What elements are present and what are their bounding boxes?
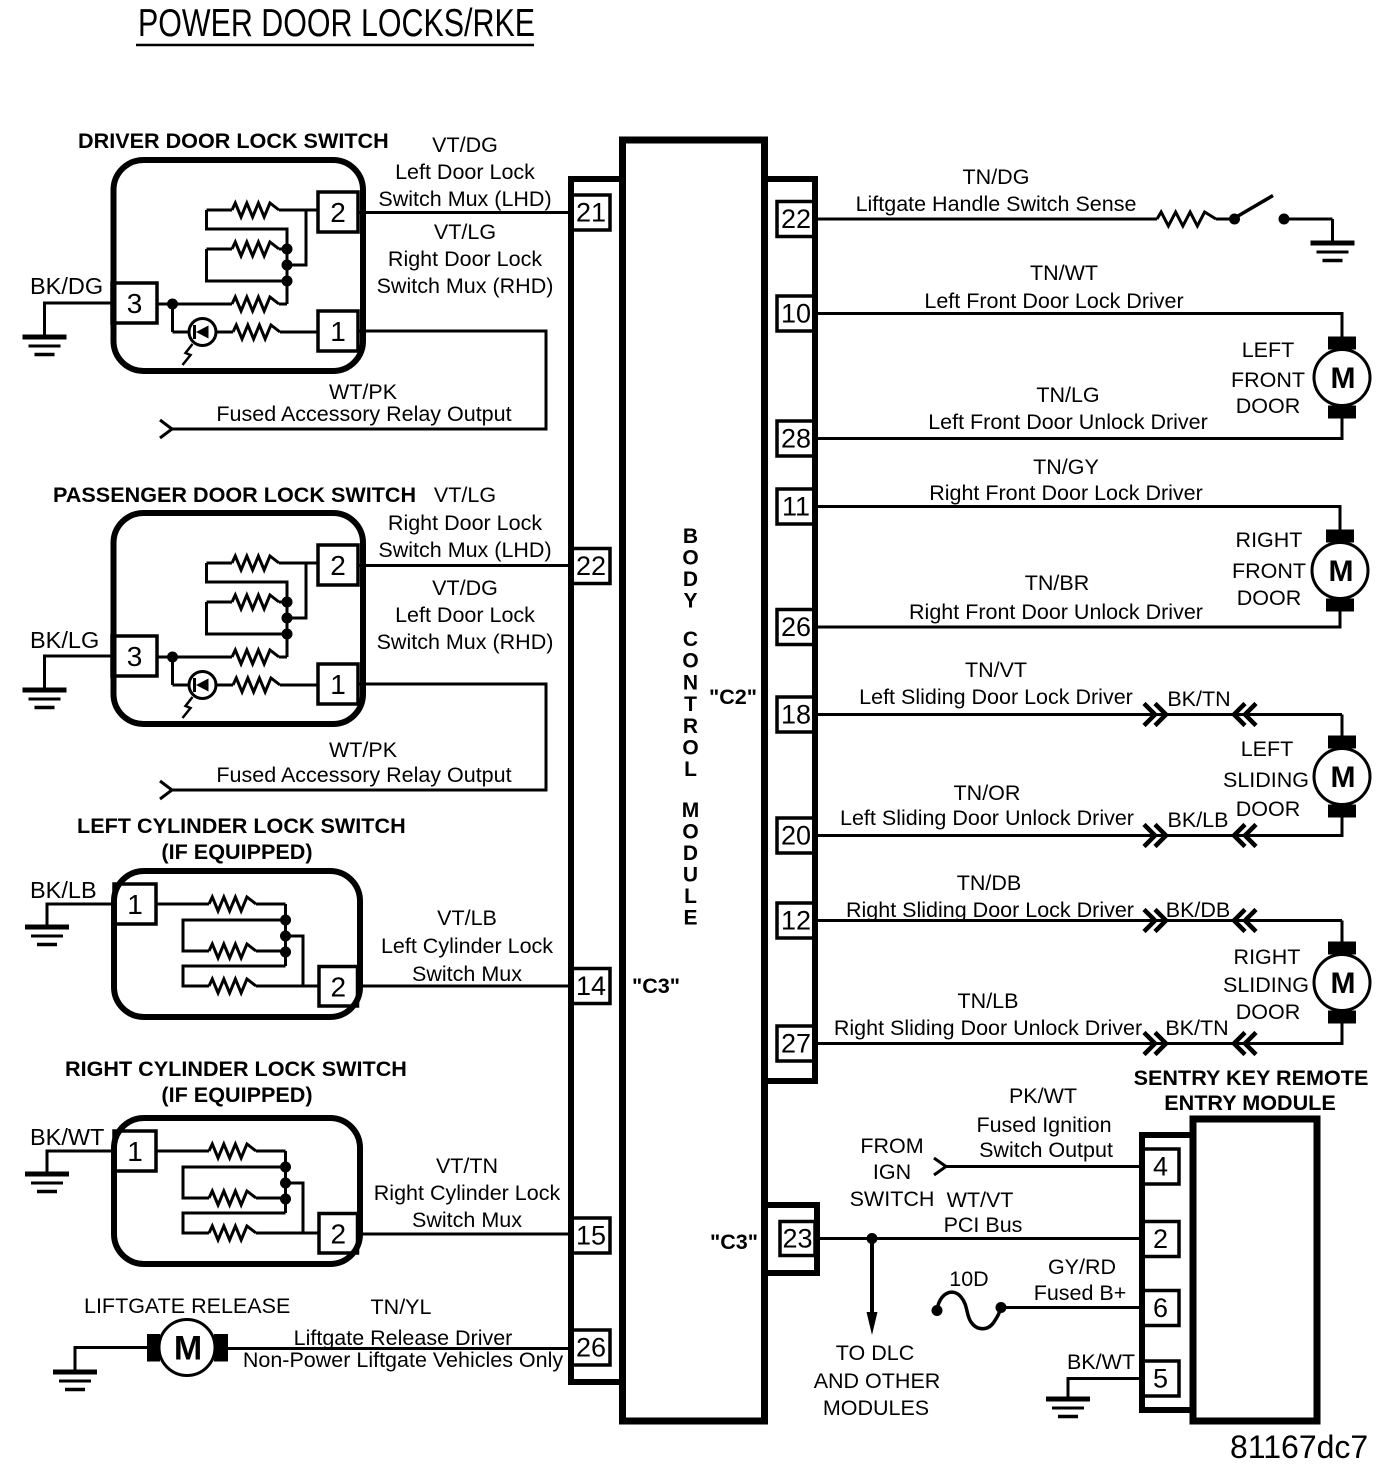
wire fuse to sentry pin 6 (GY/RD) bbox=[1001, 1306, 1142, 1309]
wire driver pin 2 to BCM pin 21 (VT/DG) bbox=[358, 211, 572, 214]
BCM right connector strip C2 bbox=[765, 179, 816, 1081]
svg-text:3: 3 bbox=[127, 641, 143, 672]
BCM pin 21 bbox=[572, 195, 610, 230]
arrow to DLC and other modules bbox=[870, 1243, 874, 1316]
svg-text:MODULES: MODULES bbox=[823, 1396, 929, 1420]
svg-text:O: O bbox=[682, 737, 698, 760]
driver switch node A dot bbox=[167, 299, 178, 310]
BCM left connector strip C3 bbox=[571, 179, 623, 1382]
driver switch pin 2 bbox=[318, 192, 358, 232]
svg-text:2: 2 bbox=[330, 197, 346, 228]
svg-text:O: O bbox=[682, 650, 698, 673]
wire sentry pin 5 to ground (BK/WT) bbox=[1068, 1379, 1142, 1399]
svg-text:2: 2 bbox=[330, 550, 346, 581]
svg-text:VT/TN: VT/TN bbox=[436, 1154, 498, 1178]
svg-text:RIGHT: RIGHT bbox=[1234, 945, 1301, 969]
svg-text:1: 1 bbox=[330, 669, 346, 700]
svg-text:WT/PK: WT/PK bbox=[329, 738, 398, 762]
right cylinder loop wire 1 bbox=[183, 1167, 286, 1198]
svg-text:BK/LG: BK/LG bbox=[30, 627, 99, 653]
right cylinder switch body bbox=[114, 1118, 360, 1264]
svg-text:Switch Mux (RHD): Switch Mux (RHD) bbox=[377, 274, 554, 298]
svg-text:TN/OR: TN/OR bbox=[954, 781, 1021, 805]
svg-text:RIGHT: RIGHT bbox=[1236, 528, 1303, 552]
BCM pin 26 (C2) bbox=[777, 610, 815, 645]
svg-text:BK/DB: BK/DB bbox=[1166, 898, 1231, 922]
svg-text:10D: 10D bbox=[949, 1267, 988, 1291]
PCI bus junction dot bbox=[867, 1233, 878, 1244]
svg-text:Switch Mux: Switch Mux bbox=[412, 1208, 522, 1232]
svg-text:Right Cylinder Lock: Right Cylinder Lock bbox=[374, 1181, 561, 1205]
svg-text:VT/LG: VT/LG bbox=[434, 483, 496, 507]
wire BCM pin 23 PCI bus to sentry pin 2 (WT/VT) bbox=[815, 1237, 1142, 1240]
svg-text:Right Sliding Door Unlock Driv: Right Sliding Door Unlock Driver bbox=[834, 1016, 1142, 1040]
right cylinder loop wire 2 bbox=[183, 1213, 286, 1233]
svg-text:PASSENGER DOOR LOCK SWITCH: PASSENGER DOOR LOCK SWITCH bbox=[53, 482, 416, 507]
svg-text:Non-Power Liftgate Vehicles On: Non-Power Liftgate Vehicles Only bbox=[243, 1348, 564, 1372]
ground G3 left cylinder bbox=[25, 925, 69, 930]
driver switch resistor R2 bbox=[207, 248, 233, 251]
svg-text:D: D bbox=[683, 568, 698, 591]
svg-text:IGN: IGN bbox=[873, 1160, 911, 1184]
wire driver pin 1 fused accessory relay output bbox=[172, 331, 546, 429]
svg-text:TO DLC: TO DLC bbox=[836, 1341, 914, 1365]
svg-text:VT/LB: VT/LB bbox=[437, 906, 497, 930]
sentry key module connector strip bbox=[1142, 1135, 1193, 1410]
svg-text:BK/LB: BK/LB bbox=[30, 877, 97, 903]
svg-text:DOOR: DOOR bbox=[1237, 586, 1302, 610]
svg-text:M: M bbox=[1331, 362, 1356, 395]
svg-text:Right Sliding Door Lock Driver: Right Sliding Door Lock Driver bbox=[846, 898, 1134, 922]
driver switch wire R1 to mux node bbox=[292, 210, 306, 265]
svg-text:TN/LB: TN/LB bbox=[958, 989, 1019, 1013]
svg-text:Right Door Lock: Right Door Lock bbox=[388, 247, 542, 271]
wire into right sliding motor top bbox=[1341, 921, 1344, 943]
svg-text:Right Front Door Unlock Driver: Right Front Door Unlock Driver bbox=[909, 600, 1203, 624]
svg-text:N: N bbox=[683, 671, 698, 694]
left cylinder loop wire 2 bbox=[183, 966, 286, 986]
BCM right connector strip C3 (pin 23) bbox=[765, 1205, 818, 1273]
passenger switch node dots bbox=[282, 597, 293, 608]
left cylinder pin 1 bbox=[114, 884, 156, 924]
svg-text:Right Door Lock: Right Door Lock bbox=[388, 511, 542, 535]
wire left cylinder pin 2 to BCM pin 14 (VT/LB) bbox=[358, 985, 573, 988]
driver switch node column wire bbox=[286, 249, 289, 304]
svg-text:FRONT: FRONT bbox=[1232, 559, 1306, 583]
BCM pin 22 (C2) bbox=[777, 202, 815, 237]
passenger switch resistor R1 bbox=[207, 562, 233, 565]
svg-text:SENTRY KEY REMOTE: SENTRY KEY REMOTE bbox=[1134, 1065, 1369, 1090]
ground G7 sentry key module bbox=[1046, 1397, 1090, 1402]
right cylinder node column bbox=[284, 1167, 287, 1213]
svg-text:LIFTGATE RELEASE: LIFTGATE RELEASE bbox=[84, 1294, 290, 1318]
BCM pin 22 (C3 left) bbox=[572, 549, 610, 584]
svg-text:Switch Mux (RHD): Switch Mux (RHD) bbox=[377, 630, 554, 654]
svg-text:12: 12 bbox=[781, 906, 811, 936]
right sliding door lock motor M5 bbox=[1328, 942, 1356, 955]
inline connector chevrons pin 18 bbox=[1144, 704, 1155, 726]
svg-text:M: M bbox=[1329, 555, 1354, 588]
svg-text:22: 22 bbox=[576, 551, 606, 581]
BCM pin 11 bbox=[777, 489, 815, 524]
svg-text:TN/GY: TN/GY bbox=[1033, 455, 1099, 479]
left front door lock motor M2 bbox=[1328, 337, 1356, 350]
inline connector chevrons pin 27 bbox=[1144, 1033, 1155, 1055]
svg-text:28: 28 bbox=[781, 424, 811, 454]
ground G5 liftgate release bbox=[53, 1370, 97, 1375]
right cylinder wire R1 corner bbox=[284, 1151, 287, 1167]
left cylinder node dots bbox=[280, 915, 291, 926]
left cylinder pin 2 bbox=[319, 967, 358, 1007]
svg-text:BK/LB: BK/LB bbox=[1168, 808, 1229, 832]
svg-text:L: L bbox=[684, 885, 697, 908]
svg-text:11: 11 bbox=[782, 492, 810, 522]
left cylinder wire R1 corner bbox=[284, 904, 287, 920]
wire liftgate motor to BCM pin 26 (TN/YL) bbox=[228, 1347, 572, 1350]
wire right cylinder pin 1 to ground bbox=[47, 1151, 114, 1173]
svg-text:5: 5 bbox=[1153, 1364, 1168, 1394]
driver switch node dots bbox=[282, 244, 293, 255]
svg-text:6: 6 bbox=[1153, 1293, 1168, 1323]
inline connector chevrons pin 20 bbox=[1144, 825, 1155, 847]
svg-text:R: R bbox=[683, 715, 698, 738]
left cylinder switch body bbox=[114, 871, 360, 1017]
svg-text:2: 2 bbox=[1153, 1224, 1168, 1254]
sentry key module outline bbox=[1193, 1119, 1317, 1421]
svg-text:2: 2 bbox=[330, 971, 346, 1002]
BCM pin 10 bbox=[777, 296, 815, 331]
ground G1 driver switch bbox=[23, 335, 67, 340]
left cylinder resistor R2 bbox=[209, 944, 256, 958]
passenger switch wire R1 to mux node bbox=[292, 563, 306, 618]
svg-text:Liftgate Handle Switch Sense: Liftgate Handle Switch Sense bbox=[856, 192, 1137, 216]
svg-text:Left Door Lock: Left Door Lock bbox=[395, 603, 535, 627]
svg-text:BK/WT: BK/WT bbox=[30, 1124, 104, 1150]
svg-text:TN/BR: TN/BR bbox=[1025, 571, 1090, 595]
driver switch wire into lamp bbox=[173, 331, 190, 334]
svg-text:C: C bbox=[683, 628, 698, 651]
passenger switch wire loop to R3 row bbox=[207, 602, 288, 634]
passenger door lock switch body bbox=[114, 513, 364, 724]
svg-text:SWITCH: SWITCH bbox=[850, 1187, 935, 1211]
svg-text:DOOR: DOOR bbox=[1236, 1000, 1301, 1024]
wire BCM pin 11 right front door lock driver (TN/GY) bbox=[815, 507, 1340, 531]
svg-text:BK/DG: BK/DG bbox=[30, 273, 103, 299]
passenger switch wire loop to R2 bbox=[207, 563, 288, 602]
wire BCM pin 27 right sliding door unlock driver (TN/LB) bbox=[815, 1023, 1342, 1044]
svg-text:"C3": "C3" bbox=[710, 1229, 758, 1254]
svg-text:2: 2 bbox=[330, 1218, 346, 1249]
svg-text:81167dc7: 81167dc7 bbox=[1230, 1429, 1368, 1465]
svg-text:O: O bbox=[682, 821, 698, 844]
wire BCM pin 22 liftgate handle switch sense (TN/DG) bbox=[815, 218, 1157, 221]
wire right cylinder pin 2 to BCM pin 15 (VT/TN) bbox=[358, 1233, 573, 1236]
BCM pin 26 (C3 left) bbox=[572, 1330, 610, 1365]
svg-text:BK/WT: BK/WT bbox=[1067, 1350, 1135, 1374]
wire BCM pin 26 right front door unlock driver (TN/BR) bbox=[815, 611, 1340, 627]
svg-text:SLIDING: SLIDING bbox=[1223, 768, 1309, 792]
svg-text:DRIVER DOOR LOCK SWITCH: DRIVER DOOR LOCK SWITCH bbox=[78, 128, 389, 153]
right cylinder mux branch wire bbox=[286, 1183, 304, 1233]
svg-text:M: M bbox=[174, 1330, 202, 1368]
passenger switch pin 2 bbox=[318, 545, 358, 585]
left cylinder resistor R3 bbox=[209, 979, 256, 993]
svg-text:M: M bbox=[1331, 967, 1356, 1000]
liftgate handle switch S5 bbox=[1229, 214, 1240, 225]
svg-text:"C2": "C2" bbox=[709, 684, 757, 709]
wire BCM pin 18 left sliding door lock driver (TN/VT) bbox=[815, 713, 1342, 716]
driver switch illumination lamp DS1 bbox=[189, 319, 216, 346]
svg-text:RIGHT CYLINDER LOCK SWITCH: RIGHT CYLINDER LOCK SWITCH bbox=[65, 1056, 407, 1081]
svg-text:ENTRY MODULE: ENTRY MODULE bbox=[1164, 1090, 1336, 1115]
svg-text:GY/RD: GY/RD bbox=[1048, 1255, 1116, 1279]
left sliding door lock motor M4 bbox=[1328, 736, 1356, 749]
sentry key pin 5 bbox=[1142, 1361, 1179, 1396]
passenger switch pin 3 bbox=[112, 636, 157, 676]
passenger switch resistor R4 bbox=[216, 684, 233, 687]
svg-text:Fused B+: Fused B+ bbox=[1034, 1281, 1127, 1305]
left cylinder node column bbox=[284, 920, 287, 966]
left cylinder resistor R1 bbox=[156, 903, 209, 906]
svg-text:FRONT: FRONT bbox=[1231, 368, 1305, 392]
svg-text:Liftgate Release Driver: Liftgate Release Driver bbox=[294, 1326, 513, 1350]
svg-text:Left Front Door Lock Driver: Left Front Door Lock Driver bbox=[924, 289, 1183, 313]
svg-text:AND OTHER: AND OTHER bbox=[814, 1369, 941, 1393]
svg-text:Switch Mux (LHD): Switch Mux (LHD) bbox=[378, 538, 551, 562]
svg-text:VT/LG: VT/LG bbox=[434, 220, 496, 244]
svg-text:VT/DG: VT/DG bbox=[432, 133, 498, 157]
svg-text:20: 20 bbox=[781, 821, 811, 851]
right cylinder pin 2 bbox=[319, 1214, 358, 1254]
sentry key pin 2 bbox=[1142, 1222, 1179, 1257]
wire left cylinder pin 1 to ground bbox=[47, 904, 114, 926]
svg-text:BK/TN: BK/TN bbox=[1165, 1016, 1228, 1040]
svg-text:27: 27 bbox=[781, 1029, 811, 1059]
svg-text:POWER DOOR LOCKS/RKE: POWER DOOR LOCKS/RKE bbox=[138, 2, 535, 45]
svg-text:PK/WT: PK/WT bbox=[1009, 1084, 1077, 1108]
svg-text:15: 15 bbox=[576, 1221, 606, 1251]
svg-text:WT/VT: WT/VT bbox=[947, 1188, 1014, 1212]
wire into left sliding motor top bbox=[1341, 715, 1344, 737]
svg-text:26: 26 bbox=[781, 612, 811, 642]
left cylinder loop wire 1 bbox=[183, 920, 286, 951]
svg-text:TN/YL: TN/YL bbox=[371, 1295, 432, 1319]
svg-text:Left Sliding Door Unlock Drive: Left Sliding Door Unlock Driver bbox=[840, 806, 1134, 830]
svg-text:SLIDING: SLIDING bbox=[1223, 973, 1309, 997]
liftgate release motor M1 bbox=[147, 1334, 160, 1362]
svg-text:L: L bbox=[684, 758, 697, 781]
passenger switch pin 1 bbox=[318, 664, 358, 704]
BCM pin 20 bbox=[777, 818, 815, 853]
svg-text:TN/VT: TN/VT bbox=[965, 658, 1027, 682]
left cylinder mux branch wire bbox=[286, 936, 304, 986]
svg-text:Right Front Door Lock Driver: Right Front Door Lock Driver bbox=[929, 481, 1203, 505]
driver switch wire to lamp bbox=[171, 304, 174, 332]
svg-text:Fused Accessory Relay Output: Fused Accessory Relay Output bbox=[216, 402, 511, 426]
svg-text:TN/LG: TN/LG bbox=[1036, 383, 1099, 407]
driver switch resistor R3 bbox=[157, 303, 232, 306]
passenger switch illumination lamp DS2 bbox=[189, 672, 216, 699]
svg-text:22: 22 bbox=[781, 204, 811, 234]
inline connector chevrons pin 12 bbox=[1144, 910, 1155, 932]
svg-text:"C3": "C3" bbox=[632, 973, 680, 998]
svg-text:DOOR: DOOR bbox=[1236, 797, 1301, 821]
off-page arrow from IGN switch bbox=[934, 1158, 946, 1175]
sentry key pin 6 bbox=[1142, 1291, 1179, 1326]
svg-text:B: B bbox=[683, 525, 698, 548]
svg-text:FROM: FROM bbox=[860, 1134, 923, 1158]
right front door lock motor M3 bbox=[1326, 530, 1354, 543]
wire driver pin 3 to ground bbox=[45, 303, 113, 336]
svg-text:4: 4 bbox=[1153, 1152, 1168, 1182]
driver switch resistor R1 bbox=[207, 209, 233, 212]
ground G2 passenger switch bbox=[23, 688, 67, 693]
body control module U1 outline bbox=[623, 140, 765, 1421]
svg-text:DOOR: DOOR bbox=[1236, 394, 1301, 418]
BCM pin 15 bbox=[572, 1218, 610, 1253]
BCM pin 18 bbox=[777, 697, 815, 732]
right cylinder pin 1 bbox=[114, 1131, 156, 1171]
svg-text:26: 26 bbox=[576, 1333, 606, 1363]
BCM pin 27 bbox=[777, 1026, 815, 1061]
driver switch resistor R4 bbox=[216, 331, 233, 334]
svg-text:(IF EQUIPPED): (IF EQUIPPED) bbox=[161, 839, 312, 864]
off-page arrow WT/PK passenger bbox=[160, 781, 172, 799]
right cylinder resistor R3 bbox=[209, 1226, 256, 1240]
svg-text:O: O bbox=[682, 547, 698, 570]
passenger switch node column wire bbox=[286, 602, 289, 657]
wire BCM pin 10 left front door lock driver (TN/WT) bbox=[815, 314, 1342, 338]
wire from ignition switch to pin 4 (PK/WT) bbox=[946, 1165, 1142, 1168]
svg-text:10: 10 bbox=[781, 299, 811, 329]
right cylinder node dots bbox=[280, 1162, 291, 1173]
driver door lock switch body bbox=[114, 160, 364, 371]
BCM pin 28 bbox=[777, 421, 815, 456]
passenger switch wire to lamp bbox=[171, 657, 174, 685]
svg-text:23: 23 bbox=[782, 1224, 812, 1254]
liftgate handle switch resistor bbox=[1157, 212, 1216, 226]
svg-text:(IF EQUIPPED): (IF EQUIPPED) bbox=[161, 1082, 312, 1107]
svg-text:21: 21 bbox=[576, 198, 606, 228]
BCM pin 23 bbox=[780, 1222, 815, 1256]
off-page arrow WT/PK driver bbox=[160, 420, 172, 438]
sentry key pin 4 bbox=[1142, 1149, 1179, 1184]
svg-text:BK/TN: BK/TN bbox=[1167, 687, 1230, 711]
passenger switch wire into lamp bbox=[173, 684, 190, 687]
wire BCM pin 20 left sliding door unlock driver (TN/OR) bbox=[815, 817, 1342, 836]
svg-text:Left Sliding Door Lock Driver: Left Sliding Door Lock Driver bbox=[859, 685, 1133, 709]
svg-text:Fused Ignition: Fused Ignition bbox=[976, 1113, 1111, 1137]
wire passenger pin 1 fused accessory relay output bbox=[172, 684, 546, 790]
passenger switch resistor R3 bbox=[157, 656, 232, 659]
wire BCM pin 28 left front door unlock driver (TN/LG) bbox=[815, 418, 1342, 439]
svg-text:M: M bbox=[682, 799, 700, 822]
svg-text:T: T bbox=[684, 693, 697, 716]
driver switch pin 1 bbox=[318, 311, 358, 351]
svg-text:U: U bbox=[683, 864, 698, 887]
svg-text:Left Door Lock: Left Door Lock bbox=[395, 160, 535, 184]
svg-text:LEFT: LEFT bbox=[1242, 338, 1295, 362]
svg-text:1: 1 bbox=[127, 889, 143, 920]
svg-text:TN/WT: TN/WT bbox=[1030, 261, 1098, 285]
svg-text:E: E bbox=[683, 907, 697, 930]
wire BCM pin 12 right sliding door lock driver (TN/DB) bbox=[815, 919, 1342, 922]
svg-text:Switch Output: Switch Output bbox=[979, 1138, 1113, 1162]
driver switch wire loop to R3 row bbox=[207, 249, 288, 281]
svg-text:18: 18 bbox=[781, 700, 811, 730]
svg-text:Fused Accessory Relay Output: Fused Accessory Relay Output bbox=[216, 763, 511, 787]
svg-text:Switch Mux: Switch Mux bbox=[412, 962, 522, 986]
svg-text:LEFT: LEFT bbox=[1241, 737, 1294, 761]
svg-text:1: 1 bbox=[330, 316, 346, 347]
ground G6 liftgate handle switch bbox=[1311, 241, 1355, 246]
svg-text:LEFT CYLINDER LOCK SWITCH: LEFT CYLINDER LOCK SWITCH bbox=[77, 813, 406, 838]
svg-text:Left Cylinder Lock: Left Cylinder Lock bbox=[381, 934, 553, 958]
BCM pin 14 bbox=[572, 969, 610, 1004]
svg-text:PCI Bus: PCI Bus bbox=[944, 1213, 1023, 1237]
svg-text:3: 3 bbox=[127, 288, 143, 319]
svg-text:TN/DB: TN/DB bbox=[957, 871, 1022, 895]
svg-text:14: 14 bbox=[576, 971, 606, 1001]
driver switch wire loop to R2 bbox=[207, 210, 288, 249]
wire liftgate motor to ground bbox=[75, 1348, 147, 1372]
wire passenger pin 3 to ground bbox=[45, 656, 113, 689]
svg-text:Y: Y bbox=[683, 590, 697, 613]
BCM pin 12 bbox=[777, 903, 815, 938]
svg-text:WT/PK: WT/PK bbox=[329, 380, 398, 404]
fuse 10D bbox=[932, 1305, 943, 1316]
wire passenger pin 2 to BCM pin 22 (VT/LG) bbox=[358, 564, 573, 567]
svg-text:1: 1 bbox=[127, 1136, 143, 1167]
svg-text:VT/DG: VT/DG bbox=[432, 576, 498, 600]
passenger switch node dot bbox=[167, 652, 178, 663]
svg-text:TN/DG: TN/DG bbox=[963, 165, 1030, 189]
svg-text:M: M bbox=[1331, 761, 1356, 794]
ground G4 right cylinder bbox=[25, 1172, 69, 1177]
right cylinder resistor R1 bbox=[156, 1150, 209, 1153]
svg-text:Left Front Door Unlock Driver: Left Front Door Unlock Driver bbox=[928, 410, 1208, 434]
driver switch pin 3 bbox=[112, 283, 157, 323]
passenger switch resistor R2 bbox=[207, 601, 233, 604]
svg-text:D: D bbox=[683, 842, 698, 865]
svg-text:Switch Mux (LHD): Switch Mux (LHD) bbox=[378, 187, 551, 211]
wire to ground liftgate handle switch bbox=[1331, 219, 1334, 242]
right cylinder resistor R2 bbox=[209, 1191, 256, 1205]
